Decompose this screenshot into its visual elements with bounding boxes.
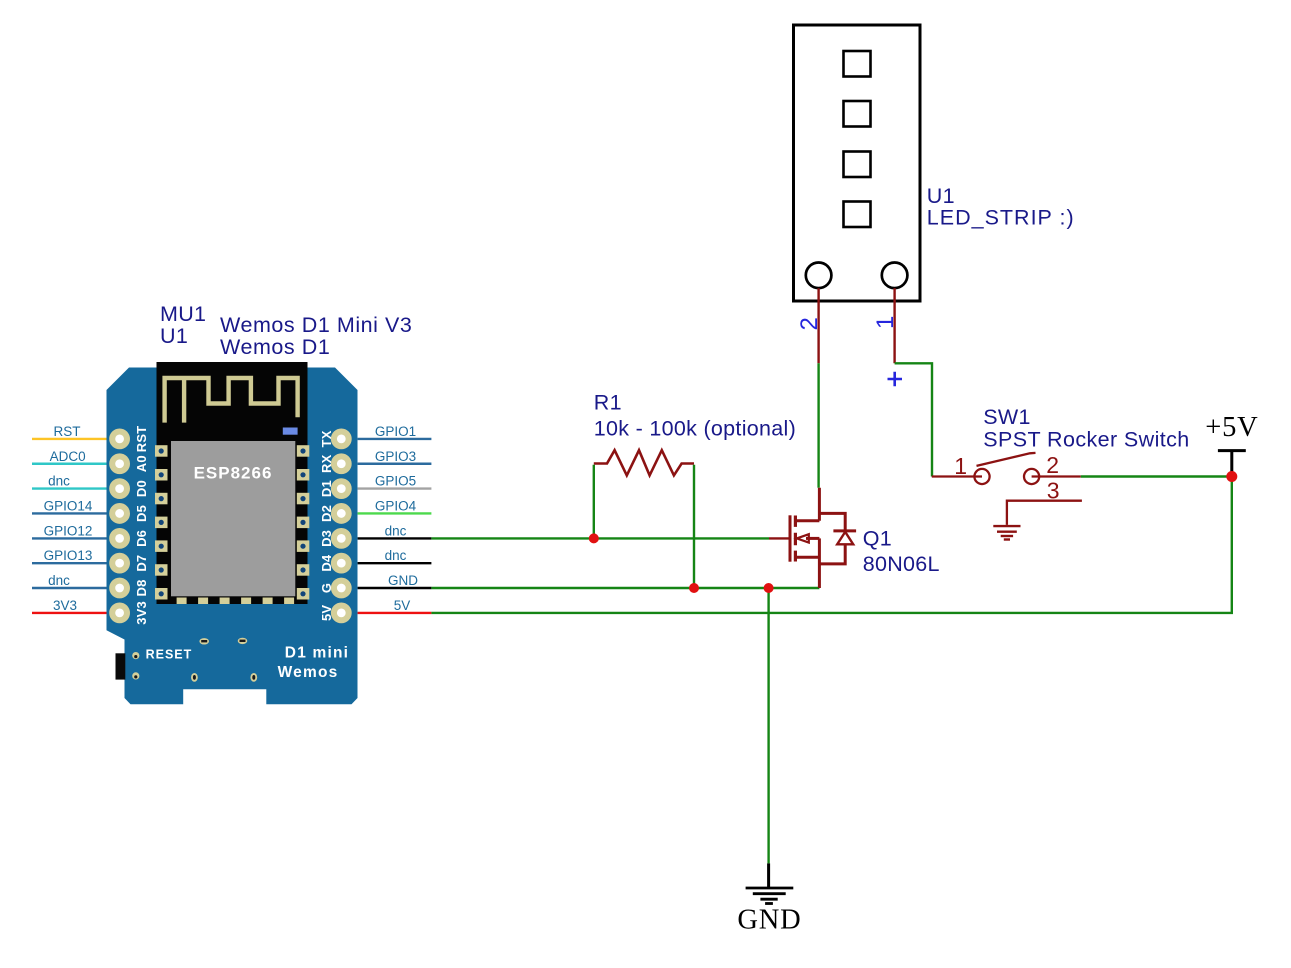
wire dnc stub (D8) [32,587,107,589]
wire dnc stub (D0) [32,487,107,489]
wire dnc stub (D4) [358,562,432,564]
svg-text:Wemos D1 Mini V3: Wemos D1 Mini V3 [220,313,412,337]
node junction +5V [1226,471,1237,482]
svg-text:D7: D7 [134,555,149,572]
svg-text:MU1: MU1 [160,302,206,326]
svg-text:GPIO5: GPIO5 [375,474,416,489]
svg-text:D1 mini: D1 mini [285,645,349,662]
svg-text:TX: TX [319,430,334,447]
label U1 LED_STRIP [927,184,1075,230]
label R1 value [594,391,796,441]
ground symbol SW1 pin3 (dark red) [993,526,1020,539]
label Wemos D1 Mini V3 [220,313,412,359]
svg-text:R1: R1 [594,391,622,415]
node + (5V net marker) [888,372,903,386]
svg-text:1: 1 [954,453,967,479]
svg-text:+5V: +5V [1205,412,1258,443]
svg-text:GPIO3: GPIO3 [375,449,416,464]
wire 5V net row to +5V (green) [431,477,1231,613]
svg-text:GPIO13: GPIO13 [44,548,93,563]
svg-text:ESP8266: ESP8266 [194,464,273,483]
wire Q1 gate stub (dark red) [769,537,789,539]
svg-text:U1: U1 [160,324,188,348]
wire gate net D3 row (green) [431,537,769,539]
esp shield black [157,362,308,604]
wire dnc stub (D3) [358,537,432,539]
wire SW1 pin2 to +5V (green) [1081,475,1232,477]
node junction gnd-drop [764,583,774,593]
board pin names right [319,430,334,621]
board outline [107,368,358,705]
svg-text:Wemos D1: Wemos D1 [220,335,330,359]
svg-text:SW1: SW1 [983,405,1031,429]
svg-text:3V3: 3V3 [134,601,149,625]
svg-text:Wemos: Wemos [278,664,339,681]
svg-text:Q1: Q1 [863,527,892,551]
antenna traces [165,378,298,423]
chip side pads [155,445,309,599]
wire R1 left leg (green) [593,465,595,539]
wire GPIO12 stub [32,537,107,539]
svg-text:3: 3 [1047,477,1060,503]
label Q1 value [863,527,940,577]
svg-text:5V: 5V [394,598,411,613]
wire R1 right leg (green) [693,465,695,588]
svg-text:D0: D0 [134,480,149,497]
status led [283,428,298,435]
svg-text:RST: RST [54,424,81,439]
wire net from LED pin2 to Q1 drain (green) [817,363,819,488]
connector U1 LED_STRIP body [794,25,921,301]
wire GND net row (green) [431,587,819,589]
svg-text:3V3: 3V3 [53,598,77,613]
wire GPIO5 stub [358,487,432,489]
svg-text:D6: D6 [134,530,149,547]
svg-text:D4: D4 [319,554,334,572]
svg-text:RST: RST [134,426,149,453]
svg-text:D8: D8 [134,579,149,596]
svg-text:2: 2 [1046,452,1059,478]
svg-text:RESET: RESET [146,648,193,662]
svg-text:dnc: dnc [385,523,407,538]
wire LED pin1 stub (dark red) [893,288,895,363]
wire 3V3 stub [32,612,107,614]
label MU1 / U1 [160,302,206,348]
svg-text:D2: D2 [319,505,334,522]
svg-text:GND: GND [388,573,418,588]
vias [132,638,257,682]
svg-text:5V: 5V [319,605,334,621]
svg-text:GPIO1: GPIO1 [375,424,416,439]
wire GND drop to ground (green) [767,588,769,863]
svg-text:LED_STRIP :): LED_STRIP :) [927,206,1075,230]
wire net from LED pin1 to SW1 pin1 (green) [895,363,932,476]
svg-text:U1: U1 [927,184,955,208]
transistor Q1 80N06L [790,488,856,588]
svg-text:GND: GND [737,905,801,936]
switch SW1 [932,453,1082,525]
wire 5V stub [358,612,432,614]
svg-text:SPST Rocker Switch: SPST Rocker Switch [983,428,1189,452]
header holes [112,432,348,621]
svg-text:G: G [319,583,334,593]
wire GPIO1 stub [358,438,432,440]
svg-text:dnc: dnc [385,548,407,563]
svg-text:D3: D3 [319,530,334,547]
wire GPIO13 stub [32,562,107,564]
board pin names left [134,426,149,625]
wire ADC0 stub [32,463,107,465]
node junction R1-gate [589,533,599,543]
svg-text:10k - 100k (optional): 10k - 100k (optional) [594,416,796,440]
wire GPIO3 stub [358,463,432,465]
usb connector [116,653,126,679]
wire GPIO4 stub [358,512,432,514]
svg-text:D1: D1 [319,480,334,497]
svg-text:dnc: dnc [48,573,70,588]
svg-text:GPIO4: GPIO4 [375,499,417,514]
svg-text:RX: RX [319,454,334,473]
wire GND stub [358,587,432,589]
chip bottom pads [177,598,295,605]
wire LED pin2 stub (dark red) [817,288,819,363]
svg-text:GPIO12: GPIO12 [44,523,93,538]
wire GPIO14 stub [32,512,107,514]
ground GND symbol [737,863,801,935]
esp8266 chip [171,441,295,596]
svg-text:GPIO14: GPIO14 [44,499,93,514]
module MU1 Wemos D1 Mini [107,362,358,704]
power +5V symbol [1205,412,1258,477]
svg-text:80N06L: 80N06L [863,552,940,576]
label SW1 [983,405,1189,452]
svg-text:ADC0: ADC0 [50,449,86,464]
wire RST stub [32,438,107,440]
node junction R1-gnd [689,583,699,593]
svg-text:D5: D5 [134,505,149,522]
resistor R1 [594,450,694,475]
svg-text:dnc: dnc [48,474,70,489]
svg-text:A0: A0 [134,455,149,472]
